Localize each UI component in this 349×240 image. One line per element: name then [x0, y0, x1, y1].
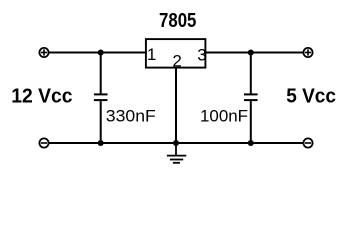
- svg-text:3: 3: [197, 46, 206, 65]
- svg-text:330nF: 330nF: [106, 106, 156, 125]
- svg-text:100nF: 100nF: [200, 106, 248, 125]
- svg-text:7805: 7805: [159, 10, 196, 32]
- svg-text:1: 1: [147, 45, 156, 64]
- svg-text:12 Vcc: 12 Vcc: [11, 85, 72, 107]
- svg-text:2: 2: [172, 51, 181, 70]
- svg-text:5 Vcc: 5 Vcc: [286, 86, 336, 108]
